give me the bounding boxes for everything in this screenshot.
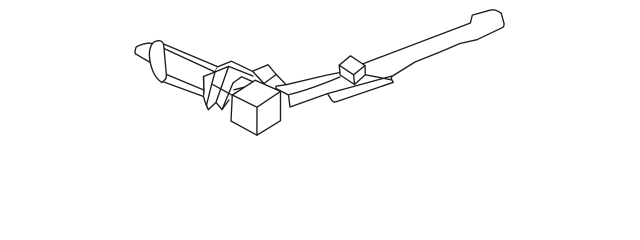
plate 2 ridge xyxy=(233,77,253,83)
bracket strap silhouette xyxy=(276,10,504,107)
flange plate stack (white fill to occlude) xyxy=(204,61,277,109)
bracket fold line under small cube to step xyxy=(328,76,393,94)
small cube on bracket xyxy=(339,56,365,85)
plate 1 front-bottom edge xyxy=(212,84,232,95)
bracket tab (quad) xyxy=(253,65,277,84)
connector cube (front-most) xyxy=(231,80,281,135)
sensor body silhouette xyxy=(158,42,218,96)
bracket tab lower edge xyxy=(276,75,286,85)
body lower edge B4 xyxy=(163,73,204,90)
body end cap edge xyxy=(203,77,206,97)
plate 2 face left edge xyxy=(222,83,233,110)
bracket inner top-face edge xyxy=(290,77,341,95)
collar xyxy=(149,41,166,83)
body top-face edge B2 xyxy=(164,49,215,73)
bracket fold line right of small cube xyxy=(366,75,392,80)
tip cap xyxy=(135,43,153,63)
plate 1 face right edge xyxy=(216,66,229,102)
plate bottom zigzag xyxy=(204,97,230,110)
plate 1 back ridge xyxy=(218,61,253,71)
plate 1 face left edge xyxy=(207,72,215,110)
plate 2 front-bottom edge xyxy=(234,85,253,90)
plate 1 front ridge xyxy=(215,66,253,76)
technical line illustration: back-up light switch assembly with mounting bracket xyxy=(0,0,640,150)
